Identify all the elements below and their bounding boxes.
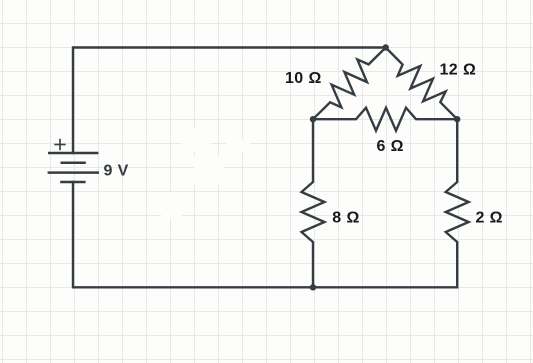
resistor R2 12ohm (top node T to node B) xyxy=(386,48,458,120)
resistor R1 10ohm (node A to top node T) xyxy=(313,48,386,120)
wire bottom: battery negative to bottom-right corner xyxy=(73,182,457,287)
svg-text:2 Ω: 2 Ω xyxy=(476,210,503,227)
svg-text:12 Ω: 12 Ω xyxy=(440,61,477,78)
node B (right mid junction dot) xyxy=(454,116,460,122)
battery V1 9V plates xyxy=(48,153,99,182)
resistor R3 6ohm (node A to node B) xyxy=(313,108,457,131)
node T (top junction dot) xyxy=(383,44,389,50)
resistor R5 2ohm (node B down to bottom wire) xyxy=(446,119,469,287)
bottom junction dot xyxy=(310,284,316,290)
wire top: battery positive to top node xyxy=(73,48,386,154)
svg-text:10 Ω: 10 Ω xyxy=(285,70,322,87)
battery plus sign xyxy=(54,139,65,150)
node A (left mid junction dot) xyxy=(310,116,316,122)
svg-text:9 V: 9 V xyxy=(104,162,129,179)
erased watermark patch 4 xyxy=(161,192,182,218)
svg-text:6 Ω: 6 Ω xyxy=(377,138,404,155)
resistor R4 8ohm (node A down to bottom junction) xyxy=(302,119,325,287)
erased watermark patch 2 xyxy=(226,139,250,152)
svg-text:8 Ω: 8 Ω xyxy=(332,210,359,227)
erased watermark patch 1 xyxy=(181,128,211,151)
erased watermark patch 3 xyxy=(194,157,224,183)
